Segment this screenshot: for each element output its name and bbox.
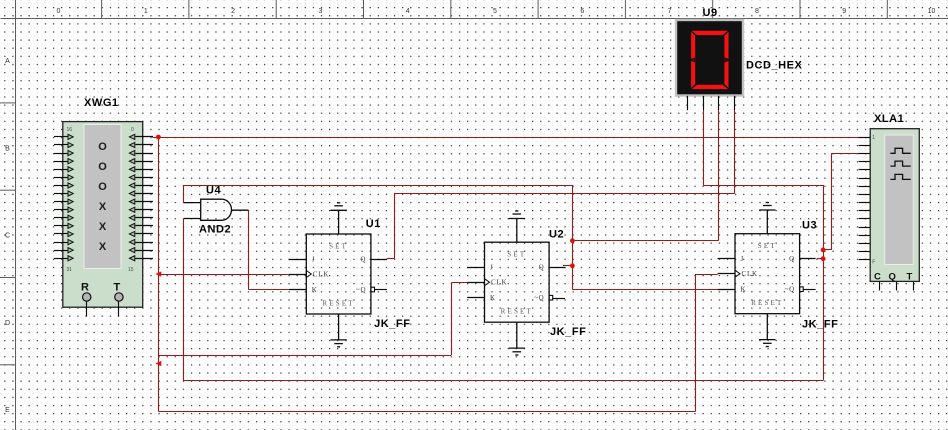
svg-text:RESET: RESET (501, 308, 533, 316)
svg-text:X: X (99, 241, 107, 253)
svg-text:T: T (114, 282, 121, 294)
svg-text:O: O (98, 141, 107, 153)
svg-text:~Q: ~Q (356, 286, 366, 294)
svg-text:U1: U1 (366, 218, 381, 230)
wire U1 Q out (387, 258, 394, 260)
wire riser to U2 CLK (451, 283, 453, 355)
ground below U1 RESET (330, 314, 346, 347)
wire riser to AND input B (183, 219, 185, 381)
svg-text:15: 15 (128, 267, 134, 273)
svg-text:9: 9 (842, 8, 846, 15)
svg-text:1: 1 (144, 8, 148, 15)
svg-text:K: K (490, 294, 496, 302)
JK flip-flop U1 (289, 234, 387, 314)
wire Q1 to display pin3 (572, 240, 718, 242)
junction Q1 to display pin3 (570, 238, 575, 243)
svg-text:8: 8 (755, 8, 759, 15)
wire into XLA1 pin3 (831, 153, 866, 155)
wire riser from U1 Q (394, 193, 396, 259)
svg-text:RESET: RESET (322, 300, 354, 308)
svg-text:B: B (5, 145, 10, 152)
svg-text:DCD_HEX: DCD_HEX (746, 60, 803, 72)
wire AND output drop (248, 210, 250, 289)
svg-text:4: 4 (406, 8, 410, 15)
ground above U2 SET (509, 211, 525, 242)
svg-text:10: 10 (928, 8, 936, 15)
wire Q1 riser (572, 185, 574, 290)
svg-text:O: O (98, 161, 107, 173)
wire Q2 riser (823, 185, 825, 381)
seven-segment display U9 DCD_HEX (676, 20, 743, 110)
wire display pin3 drop (718, 110, 720, 241)
svg-text:X: X (99, 201, 107, 213)
wire into U3 CLK (696, 274, 718, 276)
ground below U3 RESET (759, 314, 775, 347)
svg-text:C: C (5, 233, 10, 240)
junction clock at XWG1 pin0 (156, 135, 161, 140)
svg-text:U2: U2 (549, 229, 564, 241)
junction arrow clock branch (155, 361, 161, 366)
svg-text:3: 3 (318, 8, 322, 15)
svg-text:SET: SET (758, 242, 777, 250)
word generator XWG1 (54, 122, 153, 317)
wire drop to AND input A (183, 185, 185, 203)
svg-text:U3: U3 (802, 220, 817, 232)
svg-text:CLK: CLK (742, 270, 758, 278)
svg-text:RESET: RESET (751, 299, 783, 307)
wire riser to XLA1 pin3 (831, 154, 833, 250)
wire clock bottom run to U3 (158, 411, 695, 413)
junction Q2 to XLA1 (821, 248, 826, 253)
wire display pin2 to Q2 riser (703, 185, 823, 187)
svg-text:CLK: CLK (491, 279, 507, 287)
ground below U2 RESET (509, 322, 525, 355)
svg-text:~Q: ~Q (785, 286, 795, 294)
wire display pin4 drop (734, 110, 736, 193)
svg-text:SET: SET (507, 251, 526, 259)
svg-text:U9: U9 (703, 7, 718, 19)
svg-text:O: O (98, 181, 107, 193)
svg-text:XLA1: XLA1 (874, 113, 904, 125)
svg-text:JK_FF: JK_FF (802, 319, 838, 331)
svg-text:J: J (490, 264, 494, 272)
wire U2 Q out (563, 265, 572, 267)
svg-text:J: J (312, 256, 316, 264)
svg-text:C: C (874, 272, 881, 283)
svg-text:CLK: CLK (313, 271, 329, 279)
svg-text:F: F (872, 260, 875, 266)
junction Q2 at U3 Q (821, 256, 826, 261)
svg-text:0: 0 (57, 8, 61, 15)
svg-text:SET: SET (329, 243, 348, 251)
wire clock vertical riser (158, 137, 160, 412)
JK flip-flop U2 (467, 242, 565, 322)
svg-text:7: 7 (668, 8, 672, 15)
svg-text:0: 0 (131, 127, 134, 133)
wire Q2 bottom run to AND input B (184, 380, 823, 382)
svg-text:1: 1 (872, 135, 875, 141)
svg-text:E: E (5, 407, 10, 414)
svg-text:JK_FF: JK_FF (374, 318, 410, 330)
ground above U3 SET (759, 203, 775, 234)
wire U3 Q out (817, 258, 823, 260)
svg-text:K: K (312, 286, 318, 294)
wire branch to XLA1 (823, 249, 831, 251)
svg-text:XWG1: XWG1 (84, 97, 119, 109)
svg-text:Q: Q (889, 272, 896, 283)
svg-text:Q: Q (360, 256, 366, 264)
wire AND output to U1 K (248, 289, 289, 291)
svg-text:U4: U4 (206, 185, 221, 197)
svg-text:D: D (5, 320, 10, 327)
wire U1 Q to display pin4 (394, 193, 735, 195)
logic analyzer XLA1 (859, 129, 920, 291)
wire display pin2 drop (703, 110, 705, 185)
svg-text:T: T (907, 272, 913, 283)
svg-text:6: 6 (580, 8, 584, 15)
svg-text:J: J (741, 255, 745, 263)
wire clock to U1 CLK (158, 274, 289, 276)
svg-text:2: 2 (231, 8, 235, 15)
wire Q1 to U3 K (572, 289, 717, 291)
AND gate U4 (184, 199, 248, 220)
svg-text:JK_FF: JK_FF (550, 326, 586, 338)
svg-text:AND2: AND2 (199, 224, 231, 236)
svg-text:Q: Q (789, 255, 795, 263)
wire riser to U3 CLK (695, 274, 697, 412)
wire into U2 CLK (451, 282, 467, 284)
JK flip-flop U3 (718, 234, 816, 314)
svg-text:31: 31 (67, 267, 73, 273)
svg-text:K: K (741, 286, 747, 294)
wire clock bus XWG1 pin0 to XLA1 pin1 (153, 137, 867, 139)
wire AND input A run (184, 185, 573, 187)
svg-text:X: X (99, 221, 107, 233)
junction Q1 at U2 Q (570, 263, 575, 268)
svg-text:Q: Q (539, 264, 545, 272)
junction arrow clock to U1 CLK (155, 271, 161, 276)
wire clock branch to U2 (158, 355, 451, 357)
ground above U1 SET (330, 203, 346, 234)
svg-text:16: 16 (67, 127, 73, 133)
svg-text:~Q: ~Q (534, 294, 544, 302)
svg-text:5: 5 (493, 8, 497, 15)
svg-text:R: R (81, 282, 89, 294)
svg-text:A: A (5, 58, 10, 65)
